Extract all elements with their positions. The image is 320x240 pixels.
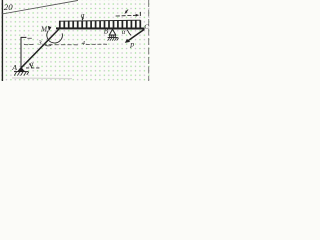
svg-text:M: M bbox=[40, 25, 48, 33]
top-right small glyph bbox=[125, 10, 128, 14]
svg-text:C: C bbox=[144, 24, 149, 31]
top-right dimension arrowhead bbox=[136, 14, 140, 17]
support B : hatching bbox=[108, 38, 119, 41]
angle alpha at C : arc bbox=[127, 30, 130, 35]
moment M arrowhead bbox=[48, 26, 52, 31]
svg-text:p: p bbox=[129, 39, 134, 48]
svg-text:B: B bbox=[104, 27, 109, 35]
short dash after cap bbox=[27, 37, 31, 39]
support A : ground line bbox=[14, 71, 28, 73]
support B : rollers bbox=[110, 35, 112, 37]
skewed top divider line bbox=[2, 0, 78, 14]
inclined member A-corner bbox=[21, 28, 59, 67]
top-right extension tick bbox=[139, 12, 141, 16]
angle alpha at A : arc bbox=[29, 64, 32, 68]
distributed load q : vertical bars bbox=[60, 20, 141, 27]
svg-text:3: 3 bbox=[37, 39, 42, 46]
vertical dimension line from A bbox=[21, 37, 26, 67]
svg-text:α: α bbox=[122, 29, 126, 36]
moment M arc bbox=[47, 31, 63, 43]
dotted grid bbox=[0, 0, 150, 81]
support A : hatching bbox=[14, 72, 29, 76]
support B : ground line bbox=[108, 37, 118, 39]
svg-text:20: 20 bbox=[4, 2, 13, 12]
svg-text:α: α bbox=[30, 61, 34, 68]
support A : pin triangle bbox=[18, 67, 24, 71]
dimension tail under incline bbox=[44, 44, 52, 46]
dimension dashed line bbox=[24, 43, 107, 46]
support B : roller triangle bbox=[109, 29, 116, 35]
distributed load q : top line bbox=[59, 20, 140, 21]
top-right dimension dashed arrow bbox=[116, 14, 136, 17]
q pointer arrow bbox=[81, 17, 83, 19]
force P line bbox=[128, 29, 144, 40]
right frame dashed line bbox=[148, 0, 150, 81]
horizontal beam corner-C bbox=[56, 27, 145, 29]
paper background bbox=[0, 0, 150, 81]
force P arrowhead bbox=[125, 39, 130, 43]
angle alpha at A : horizontal dashed reference bbox=[26, 67, 41, 69]
svg-text:A: A bbox=[11, 63, 17, 72]
left frame line bbox=[1, 0, 3, 81]
faint bleed-through streak bbox=[12, 77, 72, 80]
